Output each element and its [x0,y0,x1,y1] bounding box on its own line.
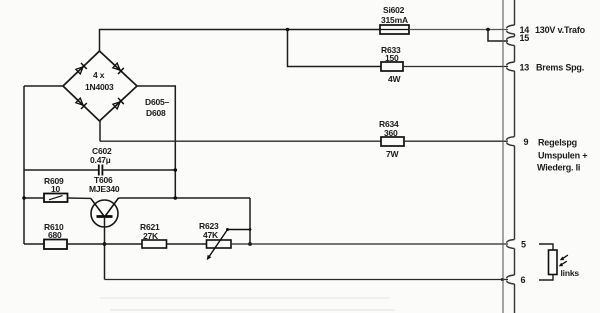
pin 9 label [524,137,588,173]
node base bottom wire [103,242,107,246]
diode bridge D605-D608 [63,51,137,121]
svg-text:MJE340: MJE340 [89,184,120,194]
wire R633 to pin 13 [403,66,508,68]
svg-text:4 x: 4 x [93,70,105,80]
potentiometer R623 [199,221,251,260]
resistor R621 [140,222,167,248]
svg-text:10: 10 [51,184,61,194]
bottom wire to pin 5 [231,243,508,245]
connector rail right with pin sockets [507,0,515,313]
wire to pin 15 [488,30,508,42]
node pin14 branch [486,28,490,32]
wire top from bridge top vertex [100,30,381,52]
node R633 branch [286,28,290,32]
svg-text:5: 5 [521,240,526,250]
svg-text:links: links [561,268,580,278]
resistor R610 [44,222,67,249]
svg-text:47K: 47K [203,230,219,240]
svg-text:4W: 4W [388,74,402,84]
wire fuse to pin 14 [409,29,508,31]
photoresistor links [539,244,579,280]
wire bridge right vertex to vertical [137,86,175,198]
diode D605 top-left [75,63,87,75]
wire to R634 [100,140,381,142]
svg-text:315mA: 315mA [381,15,408,25]
pin 6 label [521,275,526,285]
diode D608 bottom-right [112,98,124,110]
pin 13 label [520,63,585,73]
svg-text:130V v.Trafo: 130V v.Trafo [535,25,586,35]
svg-text:0.47µ: 0.47µ [90,155,111,165]
resistor R609 (fusible) [24,176,68,202]
svg-text:6: 6 [521,275,526,285]
faint scan marks bottom [100,298,395,310]
svg-text:15: 15 [520,33,530,43]
fuse Si602 [380,5,409,34]
svg-text:Wiederg. li: Wiederg. li [537,163,580,173]
svg-text:9: 9 [524,137,529,147]
resistor R634 [379,119,404,159]
svg-text:680: 680 [48,230,62,240]
node C602 right [174,168,178,172]
svg-text:13: 13 [520,63,530,73]
wire base to bottom rail pin 6 [105,279,509,281]
svg-text:Umspulen +: Umspulen + [538,151,587,161]
wire branch down to R633 [288,30,382,67]
svg-text:D608: D608 [146,108,166,118]
wire R621 to R623 [167,243,207,245]
left rail [23,86,25,244]
wire bridge left vertex to left rail [24,85,63,87]
wire R634 to pin 9 [404,140,508,142]
node pin6 wire [501,278,504,281]
svg-text:D605–: D605– [145,97,170,107]
svg-text:Si602: Si602 [383,5,405,15]
svg-text:7W: 7W [386,149,400,159]
wire R609 to transistor [68,197,92,199]
svg-text:1N4003: 1N4003 [85,82,114,92]
svg-text:360: 360 [384,128,398,138]
diode D606 top-right [112,62,124,74]
label D605-D608 [145,97,170,118]
svg-text:27K: 27K [143,231,159,241]
node collector vertical [174,196,178,200]
wire R610 to R621 [67,243,142,245]
bottom wire left [24,243,44,245]
svg-text:150: 150 [385,53,399,63]
wire collector right [119,197,251,199]
diode D607 bottom-left [75,97,87,109]
resistor R633 [381,45,403,84]
node bottom wire collector [248,242,252,246]
pin 15 label [520,33,530,43]
capacitor C602 [24,146,175,176]
wire bridge bottom vertex down [99,121,101,141]
wire collector down [249,198,251,244]
transistor T606 [89,175,120,280]
pin 5 label [521,240,526,250]
svg-text:Regelspg: Regelspg [538,138,577,148]
connector rail left [502,0,504,313]
node left rail R609 [22,196,26,200]
pin 14 label [520,25,586,35]
svg-text:Brems Spg.: Brems Spg. [536,63,584,73]
